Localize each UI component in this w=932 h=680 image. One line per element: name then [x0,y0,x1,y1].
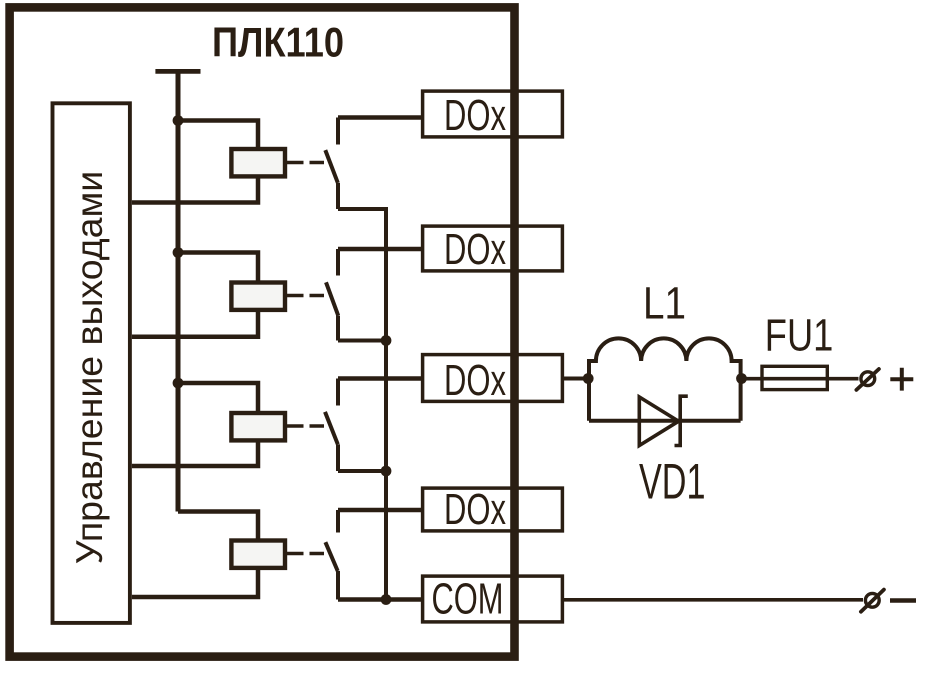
switch contact 4 top [336,510,340,533]
wire DOx3 to L1 [562,377,588,381]
switch contact 1 bottom [336,183,340,209]
switch blade 1 [325,150,338,183]
svg-text:VD1: VD1 [639,454,706,510]
junction dot L1 right [736,373,747,384]
wire relay2 coil top [178,253,258,282]
wire relay4 coil top [178,512,258,540]
wire switch1 to DOx1 [338,115,423,120]
switch contact 1 top [336,118,340,145]
wire relay3 coil top [178,383,258,412]
wire relay3 coil bottom [132,441,258,467]
junction dot collector-switch2 [381,335,392,346]
switch contact 3 top [336,379,340,406]
terminal circle plus [861,372,875,386]
node DOx terminal 3 [423,355,563,402]
switch contact 2 top [336,249,340,276]
svg-text:DOx: DOx [444,91,506,140]
inductor L1 [589,338,741,420]
node COM terminal [423,576,563,622]
junction dot supply-relay3 [173,378,184,389]
junction dot L1 left [583,373,594,384]
terminal slash minus [861,590,884,612]
node DOx terminal 2 [423,226,563,271]
dashed actuator link 1 [287,161,324,165]
switch contact 4 bottom [336,571,340,600]
terminal slash plus [856,369,879,390]
junction dot supply-relay1 [173,115,184,126]
wire switch2 bottom to collector [338,339,386,343]
dashed actuator link 2 [287,294,324,298]
wire switch1 bottom to collector [338,209,386,600]
wire relay2 coil bottom [132,310,258,337]
relay coil K1 [231,149,285,176]
switch blade 4 [325,542,337,571]
dashed actuator link 3 [287,424,324,428]
wire switch2 to DOx2 [338,247,423,252]
svg-text:FU1: FU1 [765,310,834,361]
svg-text:DOx: DOx [444,225,506,274]
switch blade 2 [326,282,338,315]
relay coil K4 [231,541,285,568]
block Управление выходами [53,103,130,623]
zener diode VD1 cathode bar [675,396,688,445]
wire L1 to plus terminal [742,377,859,381]
node DOx terminal 1 [423,91,563,137]
svg-text:COM: COM [432,575,504,624]
dashed actuator link 4 [287,552,324,556]
wire relay1 coil bottom [132,178,258,203]
svg-text:L1: L1 [643,278,686,329]
wire relay1 coil top [178,121,258,148]
zener diode VD1 triangle [639,397,678,446]
junction dot collector-COM [381,594,392,605]
relay coil K2 [231,283,285,310]
minus sign [890,598,916,603]
wire switch4 bottom to COM [338,597,423,602]
node DOx terminal 4 [423,488,563,531]
wire switch4 to DOx4 [338,508,423,513]
switch contact 3 bottom [336,444,340,471]
switch contact 2 bottom [336,316,340,341]
svg-text:Управление выходами: Управление выходами [69,171,110,565]
wire COM to minus terminal [562,598,863,602]
supply rail vertical [176,71,181,511]
switch blade 3 [325,412,338,444]
enclosure ПЛК110 box [10,7,515,656]
terminal circle minus [865,593,879,607]
relay coil K3 [231,413,285,440]
wire switch3 to DOx3 [338,376,423,381]
plus sign [890,368,913,391]
wire diode branch bottom [589,419,741,423]
junction dot collector-switch3 [381,466,392,477]
fuse FU1 [762,366,827,389]
svg-text:ПЛК110: ПЛК110 [212,19,344,66]
junction dot supply-relay2 [173,247,184,258]
svg-text:DOx: DOx [444,356,506,405]
wire relay4 coil bottom [132,568,258,597]
wire switch3 bottom to collector [338,469,386,473]
svg-text:DOx: DOx [444,485,506,534]
supply rail T-bar [155,69,200,74]
